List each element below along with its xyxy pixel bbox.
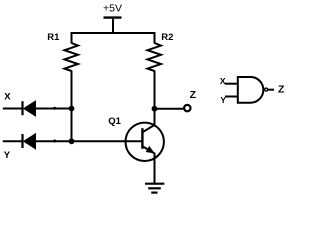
diode D2 (Y input) triangle bbox=[24, 134, 36, 149]
wire: gate Y input stub bbox=[225, 96, 238, 98]
svg-text:R1: R1 bbox=[47, 32, 60, 43]
node: Y diode junction bbox=[69, 138, 75, 144]
wire: top rail bbox=[71, 32, 156, 34]
ground bar 3 bbox=[151, 192, 157, 194]
svg-text:+5V: +5V bbox=[103, 2, 122, 14]
wire: R2 bottom lead bbox=[154, 71, 156, 109]
wire: Y diode to Q1 base bbox=[35, 140, 142, 142]
diode D1 (X input) triangle bbox=[24, 101, 36, 116]
transistor Q1 emitter arrow bbox=[146, 147, 154, 153]
wire: X input lead bbox=[3, 108, 22, 110]
resistor R2 bbox=[148, 43, 162, 71]
wire: R2 top lead bbox=[154, 32, 156, 44]
wire: collector lead bbox=[154, 109, 156, 126]
transistor Q1 base bar bbox=[141, 128, 143, 149]
node: small tick on Y wire bbox=[53, 140, 56, 143]
node: small tick on X wire bbox=[53, 107, 56, 110]
ground bar 2 bbox=[148, 187, 161, 189]
diode D1 (X input) cathode bar bbox=[21, 101, 23, 115]
wire: supply stem bbox=[112, 19, 114, 33]
svg-text:Y: Y bbox=[4, 150, 11, 161]
ground bar 1 bbox=[145, 183, 164, 185]
+5V supply bar bbox=[104, 16, 122, 18]
wire: gate output stub bbox=[268, 89, 274, 91]
transistor Q1 collector diagonal bbox=[142, 125, 154, 133]
wire: X diode to node bbox=[35, 108, 72, 110]
wire: R1 top lead bbox=[71, 32, 73, 44]
NAND gate U1 output bubble bbox=[265, 88, 268, 91]
wire: R1 bottom lead bbox=[71, 71, 73, 109]
svg-text:R2: R2 bbox=[161, 32, 173, 43]
svg-text:Z: Z bbox=[190, 89, 197, 101]
wire: R1 node down to Y node bbox=[71, 109, 73, 142]
diode D2 (Y input) cathode bar bbox=[21, 134, 23, 148]
transistor Q1 circle bbox=[126, 123, 164, 161]
wire: Y input lead bbox=[3, 140, 22, 142]
resistor R1 bbox=[65, 43, 79, 71]
wire: output to terminal bbox=[155, 108, 184, 110]
wire: gate X input stub bbox=[225, 83, 238, 85]
svg-text:Z: Z bbox=[278, 84, 285, 96]
svg-text:Q1: Q1 bbox=[108, 116, 121, 127]
terminal: output Z open circle bbox=[184, 105, 190, 111]
node: collector / output junction bbox=[152, 106, 158, 112]
transistor Q1 emitter diagonal bbox=[142, 146, 154, 153]
node: X diode / R1 junction bbox=[69, 106, 75, 112]
NAND gate U1 body bbox=[238, 77, 264, 103]
wire: emitter lead to ground bbox=[154, 153, 156, 184]
svg-text:X: X bbox=[4, 92, 11, 103]
